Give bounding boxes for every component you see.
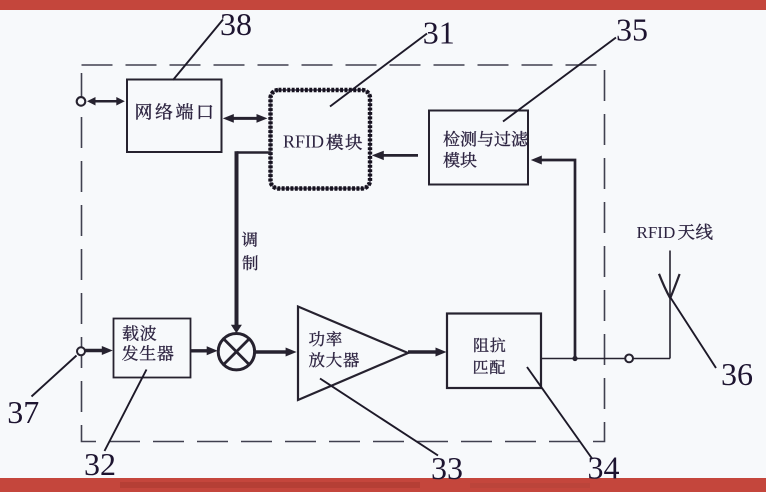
svg-text:33: 33 xyxy=(431,450,463,486)
port: top network terminal circle xyxy=(77,97,86,106)
antenna (36): vertical element with V top xyxy=(659,251,680,359)
leader line to label 34 xyxy=(527,367,592,459)
block: impedance matching (34) xyxy=(447,314,541,389)
svg-text:31: 31 xyxy=(423,14,455,50)
node: junction dot at output xyxy=(572,356,577,361)
mixer (multiplier circle with X) xyxy=(218,334,254,370)
leader line to label 37 xyxy=(32,356,77,397)
svg-text:36: 36 xyxy=(721,356,753,392)
svg-text:38: 38 xyxy=(220,6,252,42)
svg-text:35: 35 xyxy=(616,11,648,47)
block: carrier generator (32) xyxy=(114,319,191,378)
svg-text:37: 37 xyxy=(7,394,39,430)
wire: arrow detection module to RFID module xyxy=(372,151,418,160)
svg-text:34: 34 xyxy=(588,450,620,486)
leader line to label 36 xyxy=(670,297,716,369)
wire: feedback line from output node up into detection module xyxy=(531,156,575,359)
wire: arrow mixer to power amplifier xyxy=(255,348,297,357)
svg-text:RFID: RFID xyxy=(283,132,324,152)
wire: modulation line RFID module down to mixer xyxy=(231,151,271,333)
block: network port (38) xyxy=(127,80,222,153)
leader line to label 32 xyxy=(105,370,147,452)
svg-text:RFID: RFID xyxy=(637,223,676,242)
node: open circle on antenna feed xyxy=(625,355,633,363)
svg-text:32: 32 xyxy=(84,446,116,482)
label: RFID antenna text xyxy=(637,223,713,242)
dashed system boundary box xyxy=(82,65,605,442)
wire: double arrow network port to RFID module xyxy=(223,114,268,123)
port: bottom RF terminal circle xyxy=(77,347,85,355)
wire: arrow carrier generator to mixer xyxy=(191,346,218,355)
leader line to label 38 xyxy=(173,20,223,81)
block: RFID module (31) xyxy=(271,90,371,189)
leader line to label 35 xyxy=(503,38,616,122)
block: detection and filter module (35) xyxy=(429,111,528,185)
block: power amplifier triangle (33) xyxy=(298,307,408,401)
wire: feed to antenna xyxy=(633,358,670,360)
wire: impedance matching output to antenna feed xyxy=(541,358,626,360)
wire: double arrow port to network port xyxy=(87,97,125,106)
wire: arrow port to carrier generator xyxy=(85,346,113,355)
wire: arrow power amplifier to impedance matching xyxy=(408,348,447,357)
label: modulation (tiao zhi) xyxy=(242,232,258,270)
leader line to label 33 xyxy=(320,379,438,456)
leader line to label 31 xyxy=(330,34,427,107)
